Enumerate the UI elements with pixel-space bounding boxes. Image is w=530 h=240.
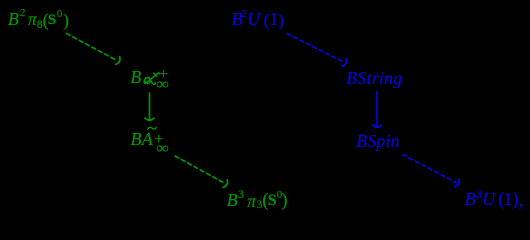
node B^3 pi_3(S^0): pi xyxy=(247,192,256,210)
arrow solid green vertical from B scrA to B tilde-A xyxy=(145,93,154,120)
node B^2 U(1): letter U xyxy=(247,10,260,28)
arrow solid blue vertical from BString to BSpin xyxy=(373,92,382,127)
node B^3 U(1),: superscript 3 xyxy=(476,188,482,200)
node B^3 U(1),: letter U xyxy=(482,190,495,208)
node B^3 U(1),: comma xyxy=(519,191,524,210)
node B^2 pi_8(S^0): letter B xyxy=(8,10,19,28)
node BString xyxy=(346,69,402,87)
node B^2 U(1): superscript 2 xyxy=(241,9,247,20)
node B^3 U(1),: letter B xyxy=(465,190,476,208)
arrow dashed blue from B^2 U(1) to BString xyxy=(287,34,347,67)
node BSpin xyxy=(356,132,400,150)
node B^3 U(1),: close paren xyxy=(512,190,518,209)
node B^3 pi_3(S^0): superscript 0 xyxy=(277,190,283,201)
node B^2 U(1): letter B xyxy=(232,10,243,28)
arrow dashed green from B^2 pi_8(S^0) to B scrA xyxy=(67,34,121,65)
node B^2 pi_8(S^0): subscript 8 xyxy=(37,18,43,30)
node B^3 U(1),: digit 1 xyxy=(503,190,512,208)
node B scrA^+_inf: superscript plus xyxy=(159,67,168,83)
node B^2 pi_8(S^0): close paren xyxy=(63,11,69,29)
node B^2 U(1): digit 1 xyxy=(269,10,278,28)
node B^2 pi_8(S^0): blackboard S xyxy=(48,13,56,28)
node B^2 pi_8(S^0): open paren xyxy=(43,11,49,29)
node B^2 pi_8(S^0): superscript 0 xyxy=(57,9,63,20)
node B scrA^+_inf: script A glyph xyxy=(141,70,161,86)
node B scrA^+_inf: subscript infinity xyxy=(156,77,169,93)
node B^2 pi_8(S^0): pi xyxy=(28,10,37,28)
node B tilde-A^+_inf: letter B xyxy=(131,130,142,148)
node B tilde-A^+_inf: subscript infinity xyxy=(156,141,169,157)
node B tilde-A^+_inf: superscript plus xyxy=(154,132,163,148)
node B tilde-A^+_inf: tilde accent xyxy=(147,126,157,131)
node B^3 pi_3(S^0): open paren xyxy=(262,191,268,210)
node B^2 U(1): close paren xyxy=(278,11,284,29)
node B^3 pi_3(S^0): subscript 3 xyxy=(256,198,262,210)
node B^2 U(1): open paren xyxy=(264,11,270,29)
node B^2 pi_8(S^0): superscript 2 xyxy=(20,8,26,19)
node B^3 pi_3(S^0): blackboard S xyxy=(268,193,277,209)
node B tilde-A^+_inf: letter A xyxy=(142,130,153,148)
arrow dashed blue from BSpin to B^3 U(1) xyxy=(403,155,459,187)
node B^3 pi_3(S^0): close paren xyxy=(281,191,287,210)
arrow dashed green from B tilde-A to B^3 pi_3(S^0) xyxy=(175,156,228,187)
node B^3 pi_3(S^0): letter B xyxy=(227,191,238,209)
node B^3 pi_3(S^0): superscript 3 xyxy=(238,188,244,200)
node B^3 U(1),: open paren xyxy=(498,190,504,209)
node B scrA^+_inf: letter B xyxy=(130,68,141,86)
